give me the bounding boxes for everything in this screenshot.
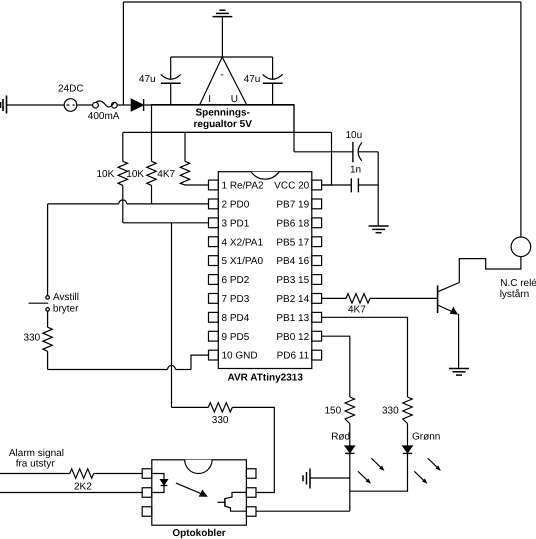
U1 pin 14 box [312, 294, 322, 304]
diode D1 [131, 99, 143, 111]
U1 pin 18 box [312, 218, 322, 228]
ground emitter [449, 369, 469, 376]
wire switch to R4 [47, 311, 49, 327]
wire to pin 10 [191, 355, 209, 369]
svg-text:lystårn: lystårn [500, 288, 529, 300]
U1 pin 1 box [209, 180, 219, 190]
capacitor C4 1n [322, 184, 352, 186]
svg-text:bryter: bryter [53, 304, 79, 315]
U1 pin 20 box [312, 180, 322, 190]
wire PD1 branch down [171, 223, 173, 408]
wire R9 to opto pin A [94, 473, 143, 475]
resistor R3 4K7 [184, 132, 186, 161]
U1 pin 9 box [209, 331, 219, 341]
svg-text:PB6 18: PB6 18 [276, 218, 309, 229]
resistor R8 150 [345, 397, 354, 424]
U3 pin box top-left [142, 469, 152, 479]
svg-text:PB0 12: PB0 12 [276, 332, 309, 343]
resistor R6 4K7 horizontal [346, 294, 370, 303]
svg-text:2 PD0: 2 PD0 [222, 200, 250, 211]
resistor R9 2K2 [70, 469, 94, 478]
wire caps to ground [377, 152, 379, 226]
wire left branch down to switch [47, 204, 49, 296]
U1 pin 2 box [209, 199, 219, 209]
transistor Q1 [437, 285, 439, 313]
wire LED1 cathode chain [349, 453, 351, 511]
LED D2 Rod [345, 446, 354, 453]
svg-text:330: 330 [382, 406, 399, 417]
wire input to 24DC source [7, 104, 64, 106]
wire diode to regulator node [144, 104, 294, 106]
svg-text:7 PD3: 7 PD3 [222, 294, 250, 305]
resistor R5 330 horizontal [208, 403, 232, 412]
svg-text:Grønn: Grønn [412, 431, 440, 442]
svg-text:AVR ATtiny2313: AVR ATtiny2313 [228, 373, 304, 384]
capacitor C3 10u [294, 151, 353, 153]
svg-text:PB2 14: PB2 14 [276, 294, 309, 305]
svg-text:U: U [231, 94, 238, 105]
svg-text:Avstill: Avstill [53, 292, 79, 303]
svg-text:Rød: Rød [331, 431, 350, 442]
wire R7 to LED2 [407, 424, 409, 447]
input ground connector [1, 96, 7, 114]
U1 pin 3 box [209, 218, 219, 228]
wire R1 continue down [122, 185, 124, 222]
U1 pin 7 box [209, 294, 219, 304]
svg-text:1n: 1n [350, 165, 361, 176]
svg-text:PB1 13: PB1 13 [276, 313, 309, 324]
svg-text:Spennings-: Spennings- [195, 108, 249, 119]
svg-text:5 X1/PA0: 5 X1/PA0 [222, 256, 264, 267]
wire rail to VCC [322, 132, 332, 185]
fuse F1 400mA [93, 102, 99, 108]
svg-text:VCC 20: VCC 20 [274, 181, 309, 192]
svg-text:PB5 17: PB5 17 [276, 237, 309, 248]
svg-text:Alarm signal: Alarm signal [9, 448, 64, 459]
wire R2 to PD0 [151, 185, 153, 204]
switch S1 Avstill bryter [46, 296, 50, 300]
wire frame top [123, 1, 521, 3]
capacitor C2 47u right [272, 57, 274, 79]
svg-text:4 X2/PA1: 4 X2/PA1 [222, 237, 264, 248]
svg-text:PB4 16: PB4 16 [276, 256, 309, 267]
resistor R4 330 [43, 327, 52, 351]
voltage regulator U2 triangle [200, 57, 247, 105]
wire LED2 to LED1 chain [350, 453, 408, 491]
svg-text:-: - [220, 70, 223, 81]
wire alarm signal bottom to pin B [0, 492, 142, 494]
wire source to fuse [77, 104, 93, 106]
LED1 arrows [358, 458, 385, 484]
wire 5V rail [123, 131, 332, 133]
U1 pin 8 box [209, 312, 219, 322]
wire PD1 net [123, 222, 209, 224]
svg-text:regualtor 5V: regualtor 5V [194, 119, 253, 130]
U1 pin 17 box [312, 237, 322, 247]
U1 pin 13 box [312, 312, 322, 322]
ground top (points up) [221, 17, 223, 57]
svg-text:I: I [208, 94, 211, 105]
wire frame right vertical [520, 2, 522, 237]
U3 pin box bottom-left [142, 507, 152, 517]
svg-text:150: 150 [325, 406, 342, 417]
wire chain to opto pin F [256, 510, 350, 512]
svg-text:PD6 11: PD6 11 [277, 351, 310, 362]
optocoupler U3 box [152, 460, 247, 525]
wire PD0 net with hop [48, 203, 119, 205]
U1 pin 6 box [209, 275, 219, 285]
U3 pin box mid-right [246, 488, 256, 498]
wire gnd to LED1 [310, 477, 350, 479]
svg-text:4K7: 4K7 [348, 305, 366, 316]
svg-text:1 Re/PA2: 1 Re/PA2 [222, 181, 264, 192]
LED D3 Gronn [403, 446, 412, 453]
svg-text:47u: 47u [139, 74, 156, 85]
svg-text:47u: 47u [244, 74, 261, 85]
capacitor C1 47u left [170, 57, 172, 79]
wire pin12 to R8 [322, 336, 350, 397]
wire node down to 10u [293, 105, 295, 152]
U1 pin 15 box [312, 275, 322, 285]
U1 pin 5 box [209, 256, 219, 266]
wire VCC pin14 to R6 [322, 297, 346, 299]
svg-text:10u: 10u [346, 130, 363, 141]
wire R4 to gnd rail [47, 351, 49, 369]
svg-text:6 PD2: 6 PD2 [222, 275, 250, 286]
wire alarm signal top [0, 473, 70, 475]
svg-text:10K: 10K [97, 169, 115, 180]
svg-text:9 PD5: 9 PD5 [222, 332, 250, 343]
svg-text:N.C relé: N.C relé [500, 278, 536, 289]
svg-text:Optokobler: Optokobler [172, 528, 225, 539]
U3 pin box mid-left [142, 488, 152, 498]
U1 pin 11 box [312, 350, 322, 360]
svg-text:24DC: 24DC [58, 84, 84, 95]
opto internal arrow [176, 483, 204, 495]
wire emitter to ground [458, 314, 460, 368]
U1 pin 19 box [312, 199, 322, 209]
wire regulator top rail [171, 56, 273, 58]
wire fuse to diode [117, 104, 131, 106]
U3 pin box top-right [246, 469, 256, 479]
lamp / relay coil N.C rele lystarn [511, 237, 531, 257]
svg-text:4K7: 4K7 [157, 169, 175, 180]
ground mid right [369, 226, 389, 233]
wire pin13 to R7 [322, 317, 408, 397]
source V1 DC supply [64, 99, 77, 112]
wire R3 to pin 1 [185, 184, 209, 186]
wire relay to collector staircase [459, 257, 521, 283]
LED2 arrows [414, 458, 441, 484]
svg-text:3 PD1: 3 PD1 [222, 218, 250, 229]
U3 pin box bottom-right [246, 507, 256, 517]
wire frame left vertical [122, 2, 124, 105]
svg-text:8 PD4: 8 PD4 [222, 313, 250, 324]
regulator box Spennings-regualtor 5V [152, 105, 295, 133]
wire R6 to base [370, 297, 438, 299]
svg-text:10K: 10K [126, 169, 144, 180]
svg-text:10 GND: 10 GND [222, 351, 258, 362]
svg-text:PB3 15: PB3 15 [276, 275, 309, 286]
svg-text:fra utstyr: fra utstyr [16, 459, 56, 470]
wire gnd horizontal with hop [48, 369, 168, 371]
opto internal LED [152, 474, 164, 480]
wire R8 to LED1 [349, 424, 351, 447]
svg-text:330: 330 [212, 415, 229, 426]
U1 pin 16 box [312, 256, 322, 266]
U1 pin 12 box [312, 331, 322, 341]
svg-text:400mA: 400mA [88, 111, 120, 122]
opto phototransistor [218, 501, 225, 503]
svg-text:PB7 19: PB7 19 [276, 200, 309, 211]
svg-text:2K2: 2K2 [74, 482, 92, 493]
resistor R7 330 [403, 397, 412, 424]
resistor R1 10K [122, 132, 124, 161]
IC U1 AVR ATtiny2313 [218, 172, 311, 369]
ground LED (points left) [303, 469, 310, 489]
svg-text:330: 330 [24, 333, 41, 344]
wire to R5 [172, 406, 209, 408]
U1 pin 4 box [209, 237, 219, 247]
wire R5 to opto pin E [232, 407, 274, 492]
resistor R2 10K [151, 132, 153, 161]
U1 pin 10 box [209, 350, 219, 360]
